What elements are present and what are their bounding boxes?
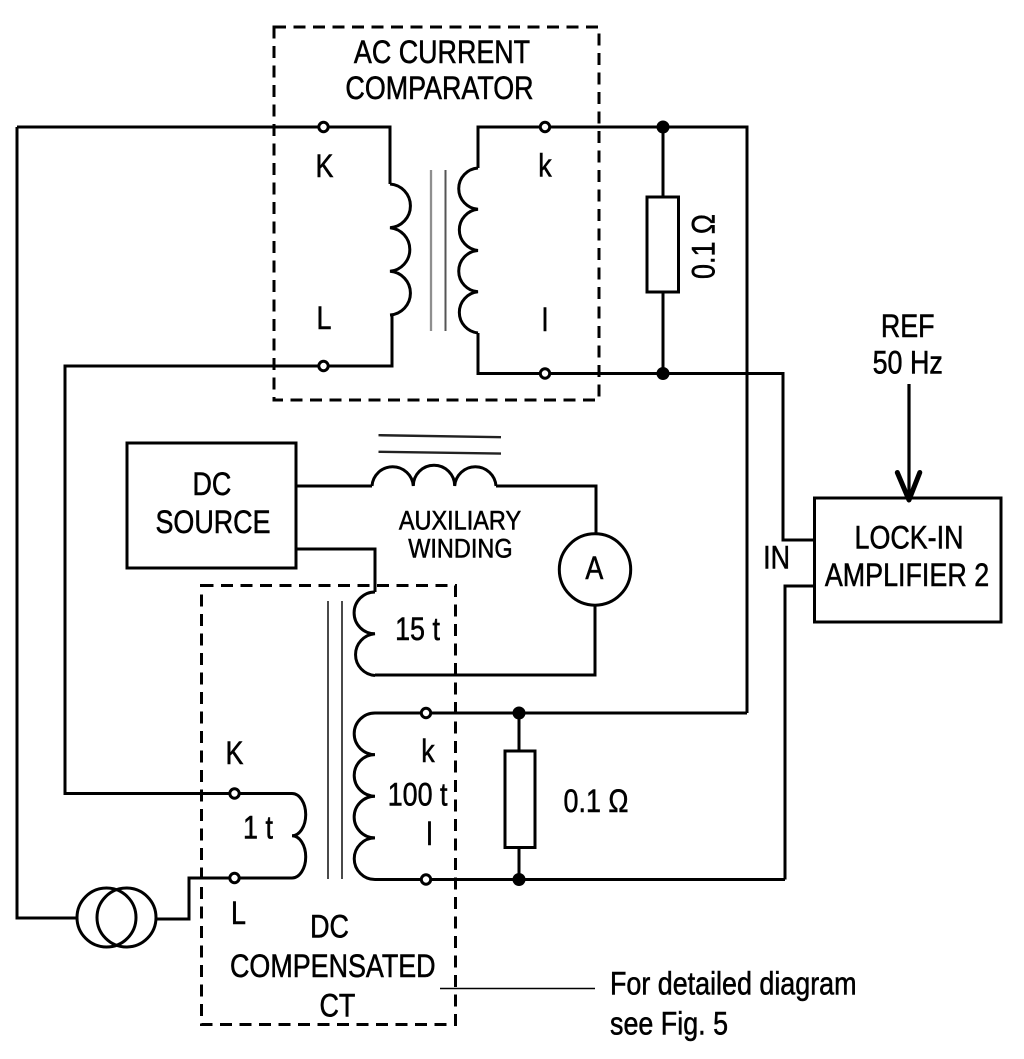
terminal L (319, 361, 328, 370)
wire node B to IN riser (663, 374, 815, 541)
winding 15t (354, 592, 375, 676)
terminal l CT (421, 875, 430, 884)
wire node D to lock-in riser (519, 878, 785, 881)
winding 1t (292, 794, 306, 879)
core CT (328, 601, 342, 879)
terminal K (319, 122, 328, 131)
svg-text:0.1 Ω: 0.1 Ω (686, 214, 722, 279)
svg-text:REF: REF (881, 309, 935, 345)
node B junction (657, 367, 670, 380)
wire terminal L to current source (156, 878, 229, 919)
core comparator (431, 170, 446, 331)
winding 100t (354, 713, 375, 880)
svg-text:DC: DC (192, 467, 231, 503)
wire DC source to 15t winding (296, 549, 375, 592)
wire terminal l to node D (431, 878, 519, 881)
wire 1t winding to terminal L (240, 877, 292, 880)
svg-text:K: K (316, 149, 334, 185)
svg-text:For detailed diagram: For detailed diagram (610, 966, 857, 1002)
wire terminal k to node C (431, 712, 519, 715)
terminal k CT (421, 708, 430, 717)
current source T1 (77, 888, 156, 947)
svg-text:SOURCE: SOURCE (156, 505, 271, 541)
winding S1 (comparator right) (459, 168, 478, 333)
label LOCK-IN AMPLIFIER 2 (825, 520, 989, 593)
svg-text:100 t: 100 t (388, 777, 448, 813)
leader line (440, 988, 595, 990)
wire winding to terminal L (329, 315, 393, 366)
svg-text:K: K (226, 736, 244, 772)
wire node C to right riser (519, 712, 747, 715)
wire auxiliary to ammeter (496, 486, 596, 533)
svg-text:AUXILIARY: AUXILIARY (399, 506, 521, 536)
svg-text:1 t: 1 t (243, 810, 273, 846)
label DC SOURCE (156, 467, 271, 541)
svg-text:see Fig. 5: see Fig. 5 (610, 1006, 728, 1042)
wire L to left bus (65, 366, 319, 794)
svg-text:CT: CT (319, 988, 355, 1024)
wire node A to right riser (663, 127, 747, 713)
winding P1 (comparator left) (390, 184, 410, 315)
svg-text:15 t: 15 t (395, 612, 440, 648)
resistor R1 (647, 197, 679, 292)
svg-text:IN: IN (763, 540, 790, 576)
svg-text:COMPARATOR: COMPARATOR (345, 71, 533, 107)
svg-text:DC: DC (310, 909, 349, 945)
label DC COMPENSATED CT (230, 909, 436, 1024)
wire DC source to auxiliary winding (296, 485, 372, 488)
wire winding to terminal l (478, 333, 540, 374)
wire terminal K to winding (329, 127, 391, 184)
wire 100t bottom to terminal l (375, 878, 421, 881)
svg-text:l: l (427, 817, 433, 853)
node D junction (513, 873, 526, 886)
node A junction (657, 121, 670, 134)
wire left outer bus (17, 127, 78, 918)
svg-text:L: L (317, 301, 332, 337)
DC source box (127, 443, 296, 568)
wire 100t top to terminal k (375, 712, 421, 715)
terminal k (540, 122, 549, 131)
wire K top-left (17, 126, 319, 129)
wire lock-in lower to CT bus (785, 586, 815, 880)
terminal L CT (230, 873, 239, 882)
svg-text:LOCK-IN: LOCK-IN (854, 520, 963, 556)
ammeter M1 (559, 534, 630, 605)
svg-text:L: L (231, 896, 246, 932)
svg-text:k: k (538, 148, 552, 184)
svg-text:A: A (585, 551, 603, 587)
wire k to node A (550, 126, 663, 129)
note For detailed diagram see Fig. 5 (610, 966, 857, 1042)
svg-text:AC CURRENT: AC CURRENT (354, 35, 530, 71)
lock-in amplifier box U1 (815, 498, 1002, 622)
resistor R2 leads (518, 713, 521, 880)
resistor R2 (505, 751, 535, 848)
auxiliary winding (372, 465, 496, 486)
core auxiliary (379, 435, 502, 453)
wire l to node B (550, 372, 663, 375)
svg-text:AMPLIFIER 2: AMPLIFIER 2 (825, 558, 989, 594)
terminal K CT (230, 789, 239, 798)
label REF 50 Hz (873, 309, 943, 381)
svg-text:WINDING: WINDING (408, 534, 512, 564)
AC current comparator dashed box (274, 27, 599, 400)
svg-text:l: l (542, 303, 548, 339)
svg-text:50 Hz: 50 Hz (873, 345, 943, 381)
svg-text:k: k (421, 734, 435, 770)
label AC CURRENT COMPARATOR (345, 35, 533, 107)
label AUXILIARY WINDING (399, 506, 521, 564)
DC compensated CT dashed box (202, 586, 456, 1025)
wire 15t to ammeter bottom (375, 605, 595, 675)
node C junction (513, 707, 526, 720)
REF arrow (897, 384, 920, 500)
svg-text:0.1 Ω: 0.1 Ω (564, 784, 629, 820)
wire terminal K to 1t winding (240, 792, 292, 795)
svg-text:COMPENSATED: COMPENSATED (230, 949, 436, 985)
resistor R1 leads (662, 127, 665, 374)
wire winding to terminal k (478, 127, 540, 168)
terminal l (540, 369, 549, 378)
